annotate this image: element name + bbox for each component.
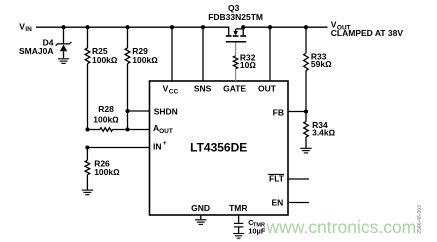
label figure code (vertical) xyxy=(417,205,423,234)
node dot SHDN-R29 xyxy=(125,109,129,113)
svg-text:59kΩ: 59kΩ xyxy=(311,59,332,69)
node dot AOUT-R25 xyxy=(85,127,89,131)
capacitor CTMR xyxy=(234,215,243,233)
label R29 100k xyxy=(132,46,158,65)
label R25 100k xyxy=(92,46,118,65)
node dot AOUT-R29 xyxy=(125,127,129,131)
label D4 xyxy=(43,38,54,48)
wire FLT stub xyxy=(288,178,309,180)
wire OUT stub xyxy=(269,27,271,81)
resistor R25 xyxy=(85,27,90,129)
node dot IN+-R26 xyxy=(85,145,89,149)
svg-text:2586-46-003: 2586-46-003 xyxy=(417,205,423,234)
label R28 100k xyxy=(93,104,119,125)
label R34 3.4k xyxy=(312,120,336,138)
node dot OUT xyxy=(268,25,272,29)
ground for GND pin xyxy=(195,215,206,224)
svg-text:GND: GND xyxy=(191,203,210,213)
svg-text:SHDN: SHDN xyxy=(154,106,178,116)
label CLAMPED AT 38V xyxy=(331,28,404,38)
resistor R32 on gate (gray leads) xyxy=(233,42,237,81)
wire VCC stub xyxy=(171,27,173,81)
wire top rail from Q3 drain to VOUT xyxy=(243,26,327,28)
pin label SNS xyxy=(194,84,212,94)
node dot R25 xyxy=(85,25,89,29)
svg-text:OUT: OUT xyxy=(258,84,277,94)
svg-text:R28: R28 xyxy=(98,104,114,114)
wire SHDN xyxy=(128,110,151,112)
wire SNS stub xyxy=(202,27,204,81)
ground for CTMR xyxy=(233,234,244,239)
wire EN stub xyxy=(288,202,309,204)
svg-text:100kΩ: 100kΩ xyxy=(92,55,118,65)
svg-text:100kΩ: 100kΩ xyxy=(93,115,119,125)
node VOUT label xyxy=(331,19,351,31)
svg-text:FLT: FLT xyxy=(269,174,285,184)
label SMAJ0A xyxy=(19,46,53,56)
label CTMR 10uF xyxy=(248,218,266,236)
label R33 59k xyxy=(311,51,332,69)
transistor Q3 MOSFET xyxy=(226,27,247,42)
pin label AOUT xyxy=(153,123,173,135)
watermark www.cntronics.com xyxy=(266,217,417,237)
ground for R26 xyxy=(82,190,93,195)
svg-text:LT4356DE: LT4356DE xyxy=(190,141,247,155)
svg-text:TMR: TMR xyxy=(229,203,247,213)
svg-text:CC: CC xyxy=(169,89,179,96)
svg-text:3.4kΩ: 3.4kΩ xyxy=(312,128,336,138)
svg-text:CLAMPED AT 38V: CLAMPED AT 38V xyxy=(331,28,404,38)
label LT4356DE xyxy=(190,141,247,155)
pin label SHDN xyxy=(154,106,178,116)
svg-text:100kΩ: 100kΩ xyxy=(94,167,120,177)
label R26 100k xyxy=(94,158,120,176)
node dot SNS xyxy=(201,25,205,29)
pin label GATE xyxy=(223,84,246,94)
pin label TMR xyxy=(229,203,247,213)
resistor R26 xyxy=(85,148,90,190)
diode D4 TVS SMAJ0A xyxy=(56,27,72,58)
op-amp U1 IC LT4356DE box xyxy=(150,81,289,215)
svg-text:SNS: SNS xyxy=(194,84,212,94)
resistor R29 xyxy=(125,27,130,129)
svg-text:GATE: GATE xyxy=(223,84,246,94)
node dot FB junction xyxy=(304,109,308,113)
node dot R29 xyxy=(125,25,129,29)
svg-text:OUT: OUT xyxy=(159,128,173,135)
svg-text:FDB33N25TM: FDB33N25TM xyxy=(208,12,263,22)
pin label FLT with overline xyxy=(268,174,285,184)
ground for R34 xyxy=(300,148,311,153)
svg-text:www.cntronics.com: www.cntronics.com xyxy=(266,217,417,237)
label R32 10ohm xyxy=(240,53,256,70)
svg-text:10µF: 10µF xyxy=(248,226,266,235)
svg-text:EN: EN xyxy=(271,198,283,208)
svg-text:V: V xyxy=(163,84,169,94)
label FDB33N25TM xyxy=(208,12,263,22)
svg-text:IN: IN xyxy=(25,26,32,33)
wire top rail from VIN to Q3 source xyxy=(36,27,229,35)
pin label VCC xyxy=(163,84,179,96)
svg-text:+: + xyxy=(163,140,167,147)
wire FB xyxy=(288,111,306,113)
pin label IN+ xyxy=(153,140,167,151)
wire IN+ xyxy=(87,147,150,149)
node dot D4 xyxy=(61,25,65,29)
node dot R33 xyxy=(304,25,308,29)
svg-text:IN: IN xyxy=(153,141,162,151)
resistor R34 xyxy=(304,112,309,148)
node dot VCC xyxy=(170,25,174,29)
node VIN label xyxy=(19,21,32,33)
node dot Q3 drain xyxy=(241,25,245,29)
svg-text:SMAJ0A: SMAJ0A xyxy=(19,46,53,56)
resistor R33 xyxy=(304,27,309,111)
svg-text:10Ω: 10Ω xyxy=(240,60,256,70)
svg-text:FB: FB xyxy=(273,107,284,117)
ground for D4 xyxy=(58,59,69,64)
label Q3 xyxy=(228,3,240,13)
pin label FB xyxy=(273,107,284,117)
svg-text:100kΩ: 100kΩ xyxy=(132,55,158,65)
resistor R28 in AOUT wire xyxy=(88,128,151,132)
pin label EN xyxy=(271,198,283,208)
pin label OUT xyxy=(258,84,277,94)
pin label GND xyxy=(191,203,210,213)
